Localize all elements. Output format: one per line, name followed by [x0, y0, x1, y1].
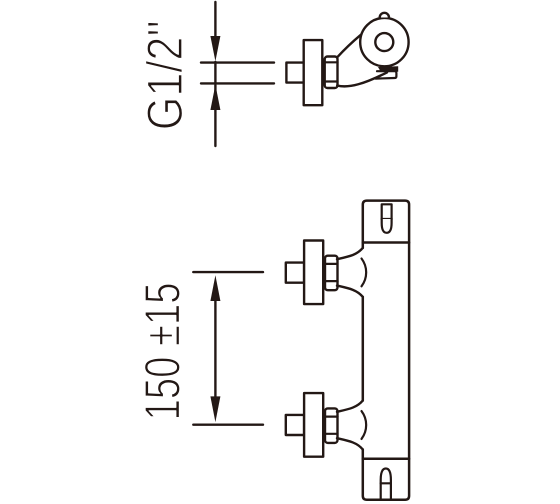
top figure: wall flange disc outer: [360, 18, 408, 66]
bar left edge middle segment: [362, 297, 365, 401]
top figure: escutcheon flange: [304, 40, 323, 105]
top figure: base plate: [376, 71, 397, 78]
upper inlet: trumpet top line: [337, 248, 363, 259]
svg-text:150 ±15: 150 ±15: [135, 282, 190, 420]
extension line upper inlet centerline: [193, 271, 263, 273]
dimension line G1/2 vertical (top figure): [214, 2, 216, 146]
extension line upper (G1/2 top): [201, 61, 274, 63]
lower inlet: cone base arc on bar: [362, 411, 367, 439]
upper inlet: trumpet bottom line: [337, 286, 363, 297]
top figure: dark base band under disc: [378, 66, 398, 72]
lower inlet: trumpet top line: [337, 401, 363, 412]
bar cap separation line: [363, 241, 409, 244]
top figure: union nut: [325, 57, 338, 89]
top screw slot rect: [382, 204, 392, 219]
top figure: threaded spigot square: [286, 63, 303, 83]
top figure: wall flange disc inner: [375, 33, 393, 51]
lower inlet: spigot square: [286, 415, 304, 435]
arrowhead bottom (points up): [210, 85, 220, 110]
label 150 ±15: [135, 282, 190, 420]
bottom arch mark: [381, 469, 391, 499]
arrowhead down (tip at lower extension line): [210, 396, 220, 422]
lower inlet: nut chamfer line lower: [325, 433, 338, 435]
upper inlet: cone base arc on bar: [362, 259, 367, 287]
upper inlet: escutcheon flange: [304, 241, 323, 305]
dimension line 150±15 vertical (bottom figure): [214, 300, 216, 397]
top screw bullet tip: [382, 219, 392, 233]
bottom arch crossbar: [381, 482, 391, 484]
upper inlet: spigot square: [286, 263, 304, 283]
upper inlet: nut chamfer line upper: [325, 263, 338, 265]
bar bottom separation line: [363, 458, 409, 461]
lower inlet: union nut: [325, 408, 338, 443]
lower inlet: nut chamfer line upper: [325, 416, 338, 418]
top figure: nut chamfer line upper: [325, 61, 338, 63]
extension line lower (G1/2 bottom): [201, 82, 274, 84]
top figure: arm upper curve: [337, 35, 361, 57]
bar outline with gaps at inlet trumpets (left edge): [363, 201, 409, 500]
top figure: top lug on disc: [380, 13, 389, 18]
lower inlet: trumpet bottom line: [337, 438, 363, 449]
label G1/2": [137, 20, 193, 130]
upper inlet: nut chamfer line lower: [325, 280, 338, 282]
arrowhead top (points down): [210, 36, 220, 61]
arrowhead up (tip at upper extension line): [210, 275, 220, 301]
svg-text:G1/2'': G1/2'': [137, 20, 193, 130]
extension line lower inlet centerline: [193, 424, 263, 426]
top figure: arm lower curve: [337, 72, 387, 86]
top figure: nut chamfer line lower: [325, 80, 338, 82]
mixer body bar: [363, 201, 409, 500]
lower inlet: escutcheon flange: [304, 393, 323, 457]
upper inlet: union nut: [325, 256, 338, 291]
top screw slot divider: [382, 218, 392, 220]
